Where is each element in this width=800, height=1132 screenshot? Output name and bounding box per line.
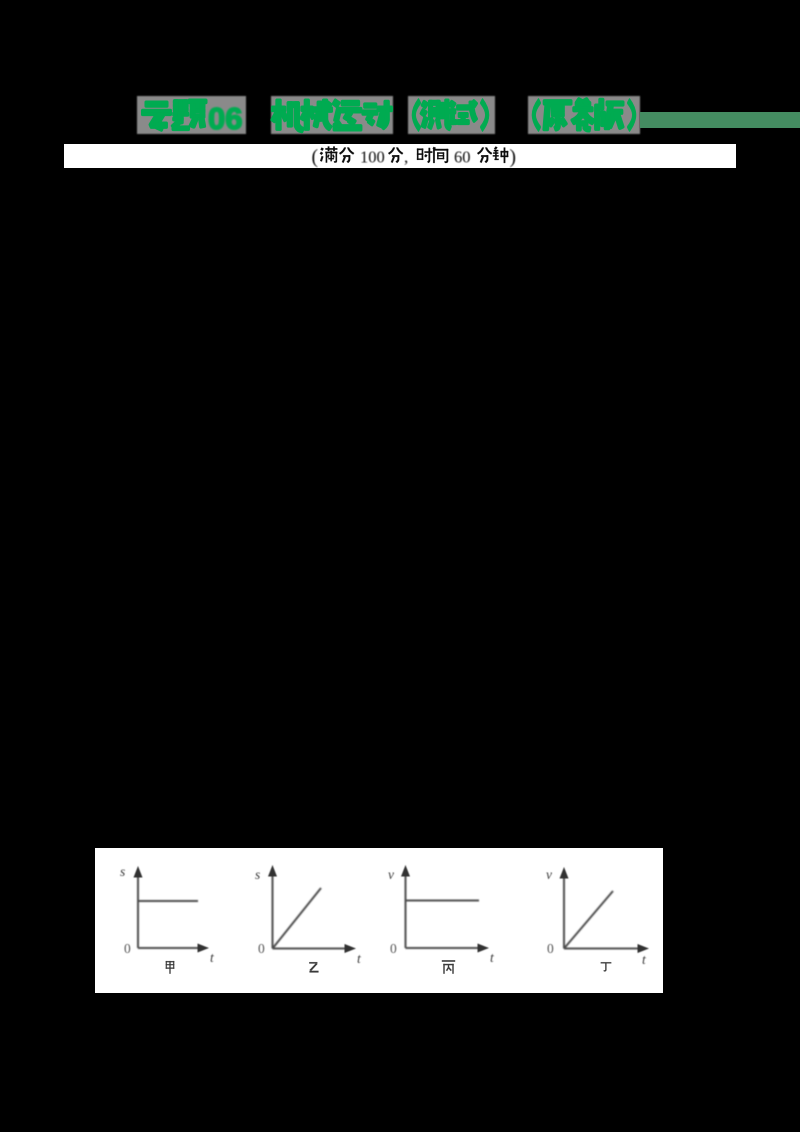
svg-text:v: v — [546, 867, 552, 882]
svg-text:0: 0 — [390, 941, 397, 956]
svg-text:100: 100 — [360, 148, 385, 167]
svg-text:0: 0 — [547, 941, 554, 956]
svg-text:60: 60 — [454, 148, 471, 167]
svg-text:s: s — [255, 867, 260, 882]
svg-text:0: 0 — [258, 941, 265, 956]
svg-text:,: , — [404, 148, 408, 167]
svg-text:v: v — [388, 867, 394, 882]
svg-text:s: s — [120, 864, 125, 879]
svg-text:06: 06 — [208, 101, 242, 136]
svg-text:0: 0 — [124, 941, 131, 956]
svg-text:): ) — [510, 147, 517, 168]
svg-text:(: ( — [312, 147, 319, 168]
